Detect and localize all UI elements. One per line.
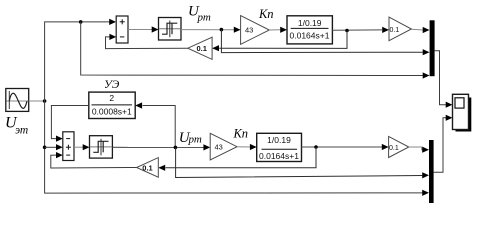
- transfer function УЭ 2 / 0.0008s+1: [89, 92, 135, 118]
- wire feedback TF2 to gain 0.1 (bottom loop): [158, 147, 316, 171]
- mux M2: [429, 140, 434, 203]
- node junction to mux wire: [79, 20, 83, 24]
- svg-text:0.1: 0.1: [389, 145, 399, 152]
- wire sum2 to relay2: [74, 144, 90, 150]
- svg-text:УЭ: УЭ: [104, 79, 120, 91]
- label Kп top: [258, 7, 274, 21]
- wire junction to sum2 plus input: [45, 144, 63, 150]
- node junction relay1/Uрт tap: [220, 28, 224, 32]
- wire Uрт to mux1 input 2: [221, 30, 429, 56]
- svg-text:0.1: 0.1: [197, 44, 207, 53]
- svg-text:рт: рт: [188, 133, 202, 145]
- label Uрт bottom: [179, 130, 202, 146]
- label Kп bottom: [233, 127, 249, 141]
- svg-text:0.1: 0.1: [390, 27, 400, 34]
- wire Uрт2 down to mux2 input 2: [176, 147, 429, 178]
- wire mux1 to scope input 1: [435, 51, 453, 108]
- wire feedback to sum2 bottom minus input: [51, 152, 137, 168]
- svg-text:0.0008s+1: 0.0008s+1: [92, 107, 132, 117]
- relay block R2: [90, 136, 113, 158]
- svg-text:0.0164s+1: 0.0164s+1: [290, 31, 330, 41]
- svg-text:0.1: 0.1: [142, 163, 152, 172]
- wire gain2 to TF2: [237, 144, 257, 150]
- node junction at sum2 plus: [43, 146, 47, 150]
- node junction TF2 output: [314, 145, 318, 149]
- source block Uэт (sine wave generator): [6, 89, 29, 112]
- svg-text:1/0.19: 1/0.19: [298, 18, 322, 28]
- scope block: [453, 94, 472, 131]
- gain 0.1 feedback top: [188, 37, 212, 59]
- wire TF1 output to gain 0.1 forward: [332, 27, 389, 33]
- node junction TF1 output: [345, 29, 349, 33]
- wire sum1 to relay1: [128, 26, 159, 32]
- svg-text:43: 43: [215, 143, 223, 152]
- gain forward 0.1 bottom: [389, 136, 409, 157]
- mux M1: [430, 20, 435, 76]
- wire gain to mux1 input 1: [411, 27, 429, 33]
- gain Kп2 (43): [210, 133, 237, 160]
- svg-text:Кп: Кп: [233, 127, 249, 141]
- gain Kп1 (43): [241, 16, 270, 45]
- node junction relay2 output: [174, 146, 178, 150]
- wire tap Uрт2 up to УЭ input: [135, 102, 175, 147]
- svg-text:рт: рт: [197, 11, 211, 23]
- transfer function TF1 1/0.19 / 0.0164s+1: [287, 16, 332, 44]
- wire mux2 to scope input 2: [434, 115, 453, 173]
- svg-text:2: 2: [109, 93, 114, 103]
- svg-text:1/0.19: 1/0.19: [267, 135, 291, 145]
- wire relay1 output: [181, 27, 241, 33]
- sum block S1 (+ -): [116, 16, 128, 43]
- svg-text:эт: эт: [15, 124, 28, 136]
- sum block S2 (- + -): [63, 132, 74, 161]
- wire Uэт down to mux1 input 3: [81, 22, 430, 79]
- transfer function TF2 1/0.19 / 0.0164s+1: [257, 133, 302, 161]
- wire gain to mux2 input 1: [409, 147, 429, 153]
- wire feedback TF1 to gain 0.1 (top loop): [212, 31, 347, 52]
- wire source up to sum1 plus input: [45, 19, 116, 101]
- relay block R1: [159, 18, 182, 41]
- wire УЭ output to sum2 first minus input: [51, 106, 88, 142]
- wire source output: [29, 100, 45, 102]
- svg-text:43: 43: [245, 25, 253, 34]
- wire feedback to sum1 minus input: [106, 34, 188, 49]
- label Uэт: [5, 115, 28, 137]
- label Uрт top: [188, 4, 211, 24]
- node source tee junction: [43, 99, 47, 103]
- wire relay2 output: [112, 144, 210, 150]
- wire TF2 output to gain forward 0.1: [302, 144, 389, 150]
- label УЭ: [104, 79, 120, 91]
- svg-text:Кп: Кп: [258, 7, 274, 21]
- wire gain1 to TF1: [269, 27, 287, 33]
- gain forward 0.1 top: [389, 17, 411, 41]
- svg-text:0.0164s+1: 0.0164s+1: [259, 151, 299, 161]
- gain 0.1 feedback bottom: [137, 158, 159, 178]
- wire source down to sum2 plus input and mux2 input 3: [45, 101, 429, 196]
